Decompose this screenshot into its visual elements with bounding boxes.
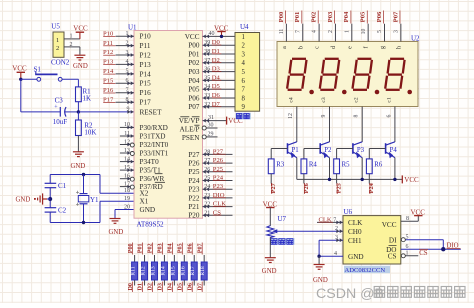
svg-text:P26: P26	[188, 160, 200, 168]
svg-text:1K: 1K	[83, 94, 92, 102]
svg-text:P03: P03	[188, 68, 200, 76]
svg-text:U6: U6	[344, 208, 353, 216]
wire R3 to label	[270, 174, 272, 184]
net label D2 below R13	[148, 282, 154, 293]
wire R6 to label	[368, 174, 370, 184]
svg-text:CLK: CLK	[348, 219, 363, 227]
U1 pin 17 P37/RD	[120, 181, 134, 189]
U1 pin 7 P16	[103, 87, 134, 95]
svg-text:P2: P2	[324, 147, 332, 154]
power port VCC above pin40	[214, 24, 229, 36]
connector U4 (排阻)	[235, 23, 260, 111]
svg-text:7: 7	[333, 217, 336, 223]
svg-text:R12: R12	[141, 266, 147, 276]
svg-text:2: 2	[70, 42, 73, 48]
wire U7 to ground	[269, 237, 271, 258]
U1 pin 25 wire P24	[203, 175, 233, 183]
svg-text:P22: P22	[188, 194, 200, 202]
svg-text:P32/INT0: P32/INT0	[140, 141, 169, 149]
svg-text:b: b	[298, 46, 304, 49]
svg-text:6: 6	[386, 114, 392, 117]
svg-text:P03: P03	[327, 11, 334, 22]
U5 pin 2 wire	[64, 42, 80, 55]
wire stub above R12	[144, 255, 146, 262]
svg-text:P26: P26	[303, 183, 310, 193]
svg-text:f: f	[363, 47, 370, 49]
wire C2 to bottom rail	[49, 212, 51, 222]
7-segment display U2 body	[277, 35, 420, 107]
U1 pin 15 P35/T1	[120, 165, 134, 172]
power port VCC at reset circuit	[12, 65, 27, 80]
svg-text:11: 11	[279, 29, 285, 35]
wire junction to ground	[318, 256, 320, 264]
svg-text:d: d	[331, 46, 337, 49]
wire VCC down to C3	[20, 79, 22, 112]
wire stub above R15	[173, 255, 175, 262]
svg-text:R13: R13	[150, 266, 156, 276]
wire emitter P4 down	[394, 158, 396, 180]
node rail P2	[328, 178, 331, 181]
U2 pin 9 common c3	[321, 97, 330, 142]
decimal point 3	[375, 90, 380, 95]
U1 pin 5 P14	[103, 68, 134, 76]
resistor R15	[170, 262, 177, 280]
node DIO junction	[441, 247, 445, 251]
svg-text:P30/RXD: P30/RXD	[140, 124, 168, 132]
wire stub below R18	[203, 280, 205, 286]
U1 pin 26 wire P25	[203, 166, 233, 174]
svg-text:VE/VP: VE/VP	[179, 117, 200, 125]
U1 pin 30 ALE stub	[202, 123, 217, 130]
svg-text:P27: P27	[270, 183, 277, 193]
potentiometer U7	[267, 215, 343, 238]
7-segment digit 1	[287, 59, 306, 90]
wire base of P1 to R3	[271, 149, 287, 159]
transistor P2	[320, 142, 332, 159]
U6 inner labels	[348, 219, 397, 261]
capacitor C2	[45, 206, 67, 214]
svg-text:S1: S1	[34, 66, 42, 74]
node between C1 C2	[48, 197, 52, 201]
svg-text:P06: P06	[188, 94, 200, 102]
U1 pin 35 wire D4	[203, 74, 236, 82]
U1 pin 8 P17	[103, 96, 134, 104]
resistor R12	[141, 262, 148, 280]
U2 pin 6 common c1	[386, 97, 395, 142]
svg-text:c3: c3	[321, 97, 327, 102]
svg-text:1: 1	[406, 250, 409, 256]
svg-text:P15: P15	[140, 80, 152, 88]
7-segment digit 4	[385, 59, 404, 90]
svg-text:R3: R3	[276, 161, 285, 168]
svg-text:P05: P05	[188, 86, 200, 94]
svg-text:20: 20	[124, 204, 130, 210]
svg-text:7: 7	[295, 30, 301, 33]
wire base of P4 to R6	[369, 149, 385, 159]
wire stub above R16	[183, 255, 185, 262]
op-amp U1 AT89S52 microcontroller body	[128, 24, 203, 229]
svg-text:5: 5	[242, 69, 246, 76]
switch S1	[34, 66, 63, 82]
svg-text:VCC: VCC	[73, 24, 88, 32]
svg-text:P12: P12	[140, 51, 152, 59]
node rail P3	[361, 178, 364, 181]
net label CS	[419, 249, 428, 257]
node crystal bottom	[82, 221, 85, 224]
svg-text:P14: P14	[140, 70, 152, 78]
svg-text:P4: P4	[390, 147, 398, 154]
svg-text:5: 5	[377, 30, 383, 33]
U1 pin 6 P15	[103, 78, 134, 86]
wire R4 to label	[303, 174, 305, 184]
wire stub below R13	[153, 280, 155, 286]
node crystal top	[82, 173, 85, 176]
net label P06 above R17	[187, 243, 193, 255]
svg-text:P31TXD: P31TXD	[140, 132, 166, 140]
svg-text:CON2: CON2	[51, 59, 70, 67]
svg-text:CS: CS	[419, 250, 428, 257]
net label D3 below R14	[158, 282, 164, 293]
node: VCC junction	[19, 78, 22, 81]
wire stub below R11	[134, 280, 136, 286]
resistor R16	[180, 262, 187, 280]
svg-text:GND: GND	[262, 268, 277, 275]
svg-text:ALE/P: ALE/P	[180, 125, 200, 133]
svg-text:U5: U5	[51, 23, 60, 31]
crystal Y1	[76, 191, 99, 206]
U1 pin 9 RESET	[127, 107, 134, 114]
svg-text:a: a	[282, 46, 288, 49]
wire emitter P1 down	[296, 158, 298, 180]
svg-text:4: 4	[334, 251, 337, 257]
svg-text:P23: P23	[188, 186, 200, 194]
svg-text:GND: GND	[313, 277, 328, 284]
wire crystal top rail	[50, 175, 100, 184]
svg-text:Y1: Y1	[90, 196, 99, 204]
wire node to R2	[77, 112, 79, 120]
svg-text:18: 18	[124, 188, 130, 194]
svg-text:6: 6	[406, 244, 409, 250]
decimal point 1	[309, 90, 314, 95]
power port VCC at pin 31	[226, 117, 228, 125]
svg-text:P25: P25	[188, 168, 200, 176]
svg-text:DI: DI	[389, 236, 397, 244]
transistor P1	[288, 142, 299, 159]
node CH1/GND junction	[317, 255, 320, 258]
wire node to ground left	[47, 198, 50, 200]
svg-text:P33/INT1: P33/INT1	[140, 149, 169, 157]
net label P04 above R15	[168, 243, 174, 255]
svg-text:VCC: VCC	[263, 200, 278, 208]
ground GND rotated left of C1C2	[16, 193, 48, 204]
svg-text:P3: P3	[357, 147, 365, 154]
U2 pin 1 segment e wire P04	[343, 11, 353, 49]
svg-text:c4: c4	[288, 97, 294, 102]
U1 pin 12 P32/INT0	[120, 139, 134, 147]
svg-text:P01: P01	[188, 50, 200, 58]
svg-text:P02: P02	[188, 59, 200, 67]
wire R2 to ground	[77, 136, 79, 152]
svg-text:U7: U7	[278, 215, 287, 223]
U6 pin 4 GND wire	[319, 251, 343, 257]
svg-text:VCC: VCC	[185, 33, 200, 41]
ground GND below pin 20	[109, 219, 124, 236]
U2 pin 5 segment g wire P06	[376, 11, 386, 50]
wire stub below R16	[183, 280, 185, 286]
svg-text:X1: X1	[140, 198, 149, 206]
svg-text:GND: GND	[16, 197, 31, 204]
U1 pin 13 P33/INT1	[120, 148, 134, 156]
svg-text:GND: GND	[140, 206, 156, 214]
svg-text:P1: P1	[292, 147, 299, 154]
wire stub below R15	[173, 280, 175, 286]
U5 pin 1 wire	[64, 34, 80, 40]
U1 pin 10 P30/RXD	[120, 122, 134, 129]
7-segment digit 2	[320, 59, 339, 90]
U1 pin 11 P31TXD	[120, 131, 134, 138]
svg-text:c2: c2	[354, 97, 360, 102]
svg-text:R14: R14	[160, 266, 166, 276]
svg-text:6: 6	[242, 78, 246, 85]
U6 pin 6 DO wire	[401, 244, 461, 250]
U1 inner label VE/VP	[179, 117, 200, 125]
svg-text:R11: R11	[131, 266, 137, 275]
svg-text:1: 1	[242, 34, 245, 41]
U2 pin 2 segment d wire P03	[327, 11, 337, 50]
U6 pin 2 CH0 wire from potentiometer	[335, 226, 343, 233]
svg-text:P10: P10	[140, 33, 152, 41]
connector U5 CON2	[51, 23, 70, 67]
svg-text:U4: U4	[240, 23, 249, 31]
U1 pin 24 wire P23	[203, 183, 233, 191]
svg-text:P02: P02	[311, 11, 318, 22]
wire node to RESET pin	[78, 111, 134, 113]
svg-text:GND: GND	[71, 163, 86, 170]
net label P01 above R12	[138, 243, 144, 255]
U1 pin 23 wire DIO	[203, 192, 233, 200]
U1 pin 1 P10	[103, 31, 134, 39]
svg-text:GND: GND	[109, 229, 124, 236]
transistor P4	[386, 142, 398, 159]
svg-text:R18: R18	[200, 266, 206, 276]
node rail P4	[393, 178, 396, 181]
ground GND below U7	[262, 258, 277, 275]
svg-text:P04: P04	[188, 77, 200, 85]
svg-text:12: 12	[288, 113, 294, 119]
U1 pin 2 P11	[103, 40, 134, 48]
wire base of P3 to R5	[337, 149, 353, 159]
wire stub below R12	[144, 280, 146, 286]
resistor R14	[160, 262, 167, 280]
wire C1 to C2	[49, 188, 51, 208]
U1 pin 18 X2	[124, 188, 130, 194]
power port VCC at U5 pin1	[73, 24, 88, 39]
svg-text:P20: P20	[188, 212, 200, 220]
svg-text:GND: GND	[73, 63, 88, 70]
wire VCC to S1	[21, 78, 37, 80]
power port VCC at rail end	[401, 175, 403, 183]
svg-text:P24: P24	[188, 177, 200, 185]
wire base of P2 to R4	[304, 149, 320, 159]
svg-text:R16: R16	[180, 266, 186, 276]
wire C3 to node	[64, 111, 78, 113]
net label P05 above R16	[178, 243, 184, 255]
svg-text:5: 5	[406, 234, 409, 240]
svg-text:CH1: CH1	[348, 237, 362, 245]
svg-text:3: 3	[242, 51, 246, 58]
capacitor C3 10uF	[53, 97, 68, 126]
net label P24	[368, 182, 375, 194]
resistor R4	[301, 159, 317, 174]
resistor R5	[334, 159, 350, 174]
resistor R18	[200, 262, 207, 280]
svg-text:19: 19	[124, 196, 130, 202]
U1 pin 31 wire	[203, 115, 227, 123]
svg-text:4: 4	[312, 30, 318, 33]
net label P00 above R11	[128, 243, 134, 255]
svg-text:g: g	[380, 46, 386, 49]
svg-text:10K: 10K	[84, 129, 96, 137]
svg-text:VCC: VCC	[404, 176, 419, 184]
svg-text:VCC: VCC	[214, 24, 229, 32]
U1 pin 33 wire D6	[203, 92, 236, 100]
resistor R6	[366, 159, 382, 174]
U2 pin 11 segment a wire P00	[278, 11, 288, 49]
svg-text:P06: P06	[376, 11, 383, 22]
ground GND below U6	[313, 265, 328, 285]
ground GND below R2	[71, 152, 86, 170]
svg-text:2: 2	[328, 30, 334, 33]
wire stub above R18	[203, 255, 205, 262]
svg-text:P13: P13	[140, 61, 152, 69]
wire top rail to X2 pin	[100, 175, 134, 194]
svg-text:8: 8	[242, 95, 246, 102]
resistor R13	[150, 262, 157, 280]
net label P26	[303, 183, 310, 194]
U1 pin 19 X1	[124, 196, 130, 202]
U1 pin 38 wire D1	[203, 48, 236, 56]
wire emitter P2 down	[329, 158, 331, 180]
decimal point 2	[342, 90, 347, 95]
svg-text:P05: P05	[360, 11, 367, 22]
svg-text:VCC: VCC	[411, 208, 426, 216]
watermark CSDN @B站小邓子分享官	[316, 286, 465, 302]
transistor P3	[353, 142, 365, 159]
U1 pin 20 GND	[124, 204, 130, 210]
svg-text:10: 10	[361, 29, 367, 35]
resistor R1 1K	[76, 87, 92, 102]
net label D7 below R18	[197, 282, 203, 293]
wire stub above R13	[153, 255, 155, 262]
net label D0 below R11	[128, 282, 134, 293]
net label P03 above R14	[158, 243, 164, 255]
U1 pin 14 P34T0	[120, 156, 134, 163]
U6 pin 7 CLK stub	[317, 216, 343, 224]
wire stub below R17	[193, 280, 195, 286]
svg-text:29: 29	[208, 132, 214, 138]
wire to C3 left	[21, 111, 60, 113]
U1 pin 28 wire P27	[203, 148, 233, 156]
svg-text:1: 1	[56, 37, 59, 44]
svg-text:C3: C3	[55, 97, 64, 105]
svg-text:30: 30	[208, 123, 214, 129]
svg-text:CH0: CH0	[348, 228, 362, 236]
svg-text:R15: R15	[170, 266, 176, 276]
wire S1 to R1	[62, 79, 78, 87]
svg-text:P16: P16	[140, 89, 152, 97]
svg-text:c1: c1	[386, 97, 392, 102]
node pin40/VCC	[220, 35, 223, 38]
node: RESET junction	[77, 110, 80, 113]
svg-text:P11: P11	[140, 42, 151, 50]
svg-text:P17: P17	[140, 99, 152, 107]
7-segment digit 3	[353, 59, 372, 90]
svg-text:P25: P25	[336, 183, 343, 193]
svg-text:P00: P00	[188, 42, 200, 50]
U6 pin 1 CS stub	[401, 250, 419, 257]
wire top to Y1	[83, 175, 85, 194]
U1 pin 37 wire D2	[203, 57, 236, 65]
svg-text:c: c	[315, 46, 321, 49]
wire stub above R11	[134, 255, 136, 262]
wire Y1 to bottom	[83, 204, 85, 223]
U2 pin 4 segment c wire P02	[311, 11, 321, 49]
capacitor C1	[45, 182, 67, 190]
decimal point 4	[407, 90, 412, 95]
svg-text:7: 7	[242, 87, 246, 94]
U1 pin 22 wire CLK	[203, 201, 233, 209]
net label D5 below R16	[178, 282, 184, 293]
U1 pin 40 wire to U4	[203, 31, 236, 38]
U6 pin 3 CH1 wire	[319, 235, 343, 256]
svg-text:9: 9	[242, 104, 246, 111]
wire stub above R17	[193, 255, 195, 262]
net label P02 above R13	[148, 243, 154, 255]
svg-text:PSEN: PSEN	[182, 134, 200, 142]
net label P25	[336, 183, 343, 194]
U1 pin 16 P36/WR	[120, 174, 134, 182]
wire emitter P3 down	[361, 158, 363, 180]
wire R1 to node	[77, 102, 79, 112]
svg-text:C1: C1	[58, 182, 67, 190]
U6 pin 8 VCC wire	[401, 216, 419, 222]
svg-text:R5: R5	[342, 161, 351, 168]
U2 pin 10 segment f wire P05	[360, 11, 370, 49]
svg-text:9: 9	[321, 114, 327, 117]
svg-text:P04: P04	[343, 11, 350, 22]
svg-text:R6: R6	[374, 161, 383, 168]
svg-text:RESET: RESET	[140, 108, 163, 116]
U1 pin 4 P13	[103, 59, 134, 67]
U2 pin 3 segment h wire P07	[392, 11, 402, 50]
svg-text:10uF: 10uF	[53, 118, 68, 126]
svg-text:P07: P07	[188, 103, 200, 111]
U1 pin 36 wire D3	[203, 66, 236, 74]
wire crystal bottom rail	[50, 222, 100, 224]
svg-text:h: h	[396, 46, 402, 49]
svg-text:ADC0832CCN: ADC0832CCN	[345, 267, 386, 274]
svg-text:X2: X2	[140, 190, 149, 198]
comment label 排阻 (resistor network)	[236, 113, 252, 120]
svg-text:C2: C2	[58, 206, 67, 214]
U6 pin 5 DI wire	[401, 234, 444, 249]
svg-text:8: 8	[354, 114, 360, 117]
U1 pin 3 P12	[103, 49, 134, 57]
wire R5 to label	[336, 174, 338, 184]
svg-text:GND: GND	[348, 253, 364, 261]
net label DIO	[447, 243, 461, 250]
svg-text:1: 1	[344, 30, 350, 33]
